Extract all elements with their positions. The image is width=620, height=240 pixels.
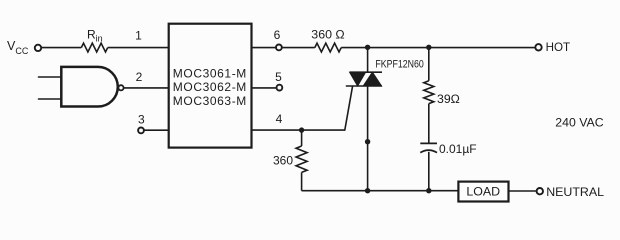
wire R 360 pulldown to neutral (301, 172, 303, 190)
svg-text:360 Ω: 360 Ω (311, 27, 344, 41)
wire NAND input A (39, 76, 62, 78)
NAND gate U2 (61, 67, 117, 107)
wire Rin to pin 1 (108, 47, 169, 49)
terminal HOT (535, 44, 541, 50)
junction pin 4 / R 360 pulldown (299, 127, 304, 132)
wire NAND output to pin 2 (124, 87, 169, 89)
junction triac MT2 / hot line (365, 45, 370, 50)
svg-text:VCC: VCC (7, 39, 29, 56)
svg-text:LOAD: LOAD (466, 184, 500, 198)
svg-text:MOC3063-M: MOC3063-M (173, 94, 247, 108)
wire 39 ohm to capacitor (428, 104, 430, 144)
svg-text:360: 360 (273, 153, 293, 167)
svg-text:MOC3062-M: MOC3062-M (173, 80, 247, 94)
wire triac MT2 (367, 48, 369, 73)
NAND output bubble (118, 85, 123, 90)
terminal pin 6 (276, 45, 282, 51)
svg-text:1: 1 (135, 29, 142, 43)
resistor 360 (gate pulldown) (296, 146, 307, 172)
junction snubber / hot line (426, 45, 431, 50)
svg-text:FKPF12N60: FKPF12N60 (375, 59, 423, 71)
wire triac gate (345, 87, 353, 131)
wire capacitor to neutral (428, 152, 430, 191)
svg-text:NEUTRAL: NEUTRAL (546, 185, 604, 199)
svg-text:MOC3061-M: MOC3061-M (173, 66, 247, 80)
wire IC pin 5 to terminal (252, 87, 277, 89)
wire LOAD to NEUTRAL (509, 190, 537, 192)
capacitor C1 top plate (420, 142, 437, 144)
svg-text:2: 2 (136, 70, 143, 84)
terminal NEUTRAL (537, 188, 543, 194)
resistor Rin (81, 43, 107, 52)
wire triac MT1 (367, 86, 369, 191)
wire pin 6 to R 360 (282, 47, 315, 49)
wire VCC to Rin (42, 47, 82, 49)
svg-text:Rin: Rin (87, 27, 103, 43)
IC U1 MOC306x-M (169, 24, 252, 148)
wire IC pin 6 to terminal (252, 47, 276, 49)
wire pin 3 to IC (144, 129, 168, 131)
svg-text:39Ω: 39Ω (437, 92, 460, 106)
svg-text:5: 5 (275, 70, 282, 84)
wire NAND input B (39, 98, 62, 100)
triac Q1 right triangle (363, 72, 381, 86)
terminal pin 5 (277, 85, 283, 91)
wire IC pin 4 to gate (252, 129, 345, 131)
terminal pin 3 (138, 127, 144, 133)
resistor 360 (gate pulldown) wire top (301, 130, 303, 146)
resistor 360 ohm (series) (315, 43, 341, 52)
wire neutral run (302, 190, 459, 192)
capacitor C1 bottom plate (curved) (420, 150, 437, 153)
load box (458, 182, 508, 202)
svg-text:3: 3 (138, 113, 145, 127)
svg-text:4: 4 (276, 112, 283, 126)
svg-text:6: 6 (274, 28, 281, 42)
junction on MT1 (365, 139, 370, 144)
svg-text:0.01µF: 0.01µF (439, 142, 477, 156)
svg-text:HOT: HOT (546, 41, 570, 54)
triac Q1 bottom bar (346, 85, 382, 87)
triac Q1 left triangle (350, 72, 366, 86)
junction MT1 / neutral (365, 188, 370, 193)
triac Q1 top bar (350, 71, 382, 73)
junction snubber / neutral (426, 188, 431, 193)
wire R 360 to HOT (341, 47, 535, 49)
wire snubber top (428, 47, 430, 81)
resistor 39 ohm (424, 81, 434, 104)
terminal VCC (35, 45, 41, 51)
svg-text:240 VAC: 240 VAC (555, 116, 603, 130)
